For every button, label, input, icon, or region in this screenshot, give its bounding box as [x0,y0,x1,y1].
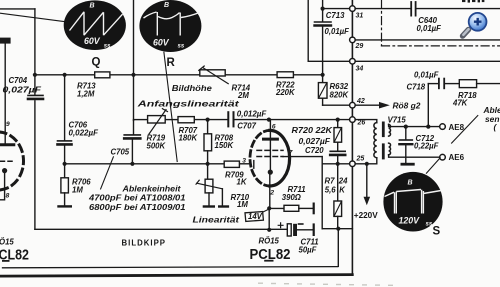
svg-text:ss: ss [178,44,185,50]
svg-text:Linearität: Linearität [193,214,241,224]
svg-text:R: R [167,57,176,69]
junction dots on top wire [33,73,325,77]
svg-text:2: 2 [269,189,274,196]
svg-text:B: B [408,180,413,187]
svg-text:29: 29 [355,43,364,50]
junction dot +220V tap [365,162,369,166]
left tube grid [0,160,12,162]
wire second row y119.6 [134,119,148,121]
svg-text:Ö15: Ö15 [0,237,14,246]
capacitor C720 [330,150,345,152]
svg-text:C705: C705 [111,147,130,156]
wire secondary to AE6 [389,155,440,157]
module box right edge [351,0,353,275]
wire inner frame right drop [337,229,339,267]
junction dot C713 top [321,7,325,11]
wire left bus vertical (chassis line, C704 in series) [34,9,36,94]
faint page dots bottom [258,283,393,287]
svg-text:sen: sen [485,114,499,124]
capacitor C706 [58,140,72,142]
wire bottom right section [322,228,352,230]
svg-text:R7: R7 [325,177,336,186]
wire node31 to C640 [355,8,410,10]
resistor R713 [95,72,110,78]
svg-text:31: 31 [356,12,364,19]
resistor R709 [224,161,239,167]
wire main top y75 [35,74,95,76]
svg-text:2M: 2M [237,91,249,100]
wire C718 down to AE8 [427,84,429,127]
resistor R706 [64,164,66,178]
pentode Rö15 PCL82 envelope [250,130,270,186]
svg-text:7: 7 [289,149,293,156]
svg-text:120V: 120V [399,216,421,226]
svg-text:AE6: AE6 [449,153,465,162]
svg-text:6800pF bei AT1009/01: 6800pF bei AT1009/01 [89,203,186,212]
svg-text:Bildhöhe: Bildhöhe [172,83,212,93]
resistor R632 [318,83,327,99]
potentiometer R714 [200,70,225,76]
callout line Ablenkeinheit [452,116,478,144]
svg-text:50µF: 50µF [299,246,317,255]
terminal AE8 [440,124,446,130]
14V tag box [245,212,263,222]
callout line circle R [164,52,177,161]
svg-text:26: 26 [357,120,366,127]
svg-text:25: 25 [356,155,365,162]
junction dots cathode node [267,206,271,232]
resistor R718 [459,80,476,88]
svg-text:1M: 1M [72,185,83,194]
svg-text:0,012µF: 0,012µF [237,110,267,119]
transformer V715 secondary winding [389,124,391,136]
wire top y8.6 node31 [323,8,350,10]
svg-text:1,2M: 1,2M [77,89,95,98]
svg-text:Ablenkeinheit: Ablenkeinheit [121,184,181,194]
callout line circle S [426,158,440,173]
svg-text:S: S [433,226,441,238]
top-right cut text fragment [462,0,484,3]
svg-text:14V: 14V [248,212,263,221]
C713 branch vertical [322,0,324,21]
plus mark C711 [278,223,283,228]
resistor R724 [337,164,339,201]
left tube stub terminal [0,38,11,44]
wire cathode to bottom [268,208,270,229]
page bottom thin line [3,267,338,268]
terminal AE6 [440,154,446,160]
potentiometer R710 [207,164,209,179]
svg-text:0,01µF: 0,01µF [414,71,439,80]
svg-text:0,022µF: 0,022µF [69,128,99,137]
capacitor C711 electrolytic on bottom bus [287,224,291,236]
wire top-left to left bus corner [0,8,35,10]
svg-text:42: 42 [356,98,365,105]
svg-text:C720: C720 [305,146,324,155]
wire pin7 to right [283,156,322,158]
svg-text:0,01µF: 0,01µF [417,24,442,33]
svg-text:ss: ss [104,43,111,49]
svg-text:5,6: 5,6 [325,185,337,194]
capacitor C718 [428,83,438,85]
svg-text:390Ω: 390Ω [282,193,301,202]
anode [264,138,278,141]
resistor R722 [277,72,293,78]
junction dots AE8 wire [404,125,431,129]
transformer V715 left winding [374,123,377,158]
svg-text:V715: V715 [388,115,407,124]
wire x308 vertical to node34 [307,0,309,61]
svg-text:24: 24 [338,177,348,186]
svg-text:BILDKIPP: BILDKIPP [122,239,166,248]
junction dots on third row wire [63,162,210,166]
capacitor C705 branch [133,120,135,134]
svg-text:1M: 1M [237,200,248,209]
resistor R708 [207,120,209,134]
wire third row y163.8 [65,163,225,165]
wire secondary to AE8 [389,124,440,126]
wire C706 branch [64,75,66,140]
resistor R720 [337,120,339,128]
capacitor C707 [227,112,229,126]
resistor R707 [178,117,194,123]
svg-text:B: B [90,3,95,10]
svg-text:60V: 60V [153,38,170,48]
svg-text:RÖ15: RÖ15 [259,236,280,245]
svg-text:8: 8 [6,192,10,199]
capacitor C704 [28,94,43,96]
svg-text:6: 6 [272,123,276,130]
svg-text:Anfangslinearität: Anfangslinearität [136,98,240,108]
svg-text:4700pF bei AT1008/01: 4700pF bei AT1008/01 [88,194,186,203]
dash-dot partition [381,0,383,46]
wire vertical between Q and R down to second row [133,0,135,120]
junction dots on second row wire [206,118,340,122]
minus mark C711 [299,223,303,225]
capacitor C640 [410,2,412,16]
svg-text:34: 34 [356,65,364,72]
svg-text:C707: C707 [237,122,256,131]
svg-text:820K: 820K [330,90,350,99]
page bottom thick bar [1,275,352,277]
callout line 14V [262,209,269,212]
oscillogram Q [64,0,126,50]
wire bottom bus left section [35,228,287,230]
svg-text:B: B [164,2,169,9]
left tube anode [0,143,14,146]
svg-text:9: 9 [6,121,10,128]
oscillogram S [383,172,442,232]
svg-text:220K: 220K [275,88,296,97]
svg-text:+220V: +220V [354,211,378,220]
capacitor C712 [405,127,407,140]
svg-text:R720 22K: R720 22K [292,126,334,135]
+220V feed arrow [366,164,368,197]
callout line C705 [101,157,114,189]
wire node29 right [355,39,500,41]
svg-text:1K: 1K [237,178,248,187]
svg-text:3: 3 [242,157,246,164]
junction dot bottom right wire [336,227,340,231]
svg-text:Rö8 g2: Rö8 g2 [393,101,421,111]
svg-text:47K: 47K [452,98,469,107]
wire y163.8 right segment [322,163,349,165]
triode Rö15 left tube envelope [0,132,24,190]
svg-text:180K: 180K [179,134,199,143]
potentiometer R719 [148,116,166,123]
svg-text:0,01µF: 0,01µF [325,27,350,36]
svg-text:60V: 60V [84,36,101,46]
left tube cathode [2,168,7,173]
node terminals on box edge [350,6,356,167]
svg-text:0,027µF: 0,027µF [3,85,42,94]
junction dot C720 bottom [336,162,340,166]
svg-text:Q: Q [92,57,101,69]
transformer V715 primary wires [355,120,377,123]
callout line circle Q [0,13,65,21]
svg-text:C718: C718 [407,83,426,92]
oscillogram R [139,0,201,52]
svg-text:C704: C704 [9,76,28,85]
grids [257,149,283,151]
transformer V715 core [382,122,385,138]
svg-text:0,027µF: 0,027µF [299,137,331,146]
svg-text:0,22µF: 0,22µF [414,142,439,151]
svg-text:C713: C713 [326,11,345,20]
resistor R711 [269,207,284,209]
cathode [269,141,271,169]
svg-text:500K: 500K [147,142,167,151]
svg-text:AE8: AE8 [449,123,465,132]
svg-text:150K: 150K [215,141,235,150]
node42 arrow Rö8 g2 [355,104,379,106]
